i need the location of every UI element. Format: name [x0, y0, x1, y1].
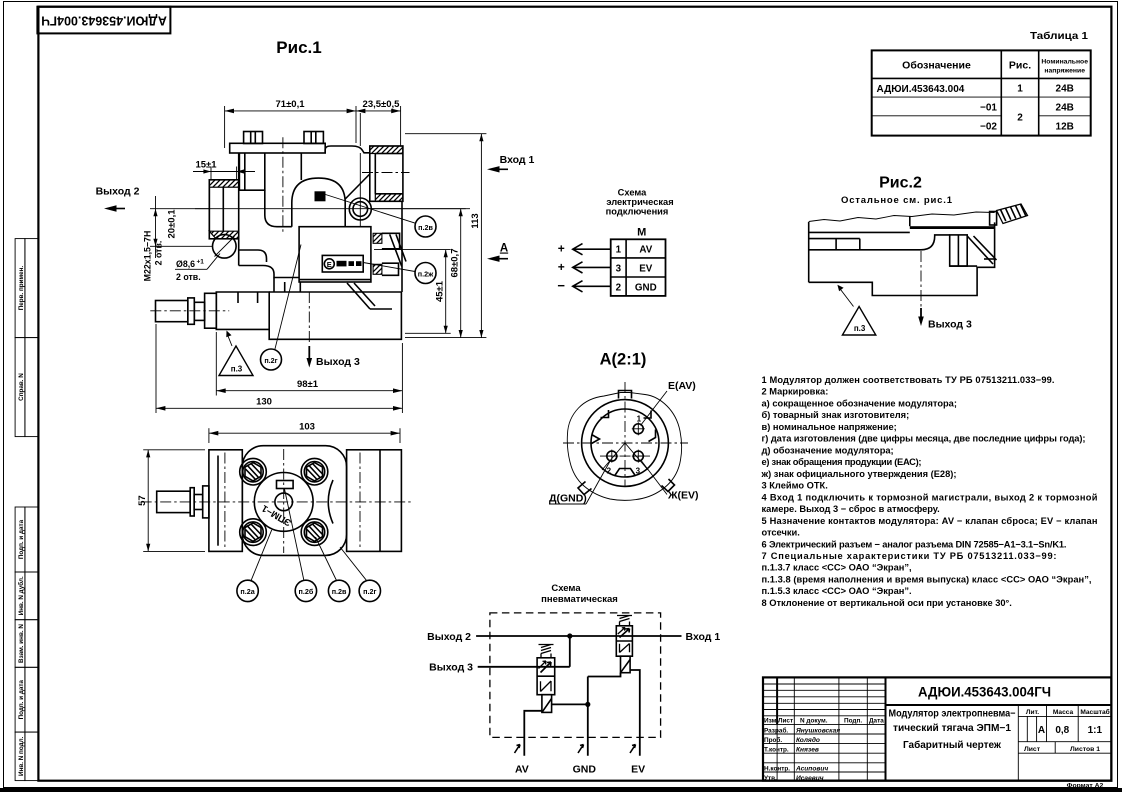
svg-text:24В: 24В [1056, 84, 1074, 95]
svg-text:+: + [558, 242, 565, 256]
valve EV (right) [616, 616, 632, 673]
dim 45±1 [374, 249, 451, 251]
wire vyhod3 [478, 666, 570, 668]
table frame [872, 50, 1091, 135]
dim 15 [210, 167, 212, 181]
callout n.2b [295, 580, 316, 601]
bottom scan band [0, 788, 1122, 792]
svg-text:AV: AV [639, 245, 652, 256]
svg-text:24В: 24В [1056, 103, 1074, 114]
connector lower-left notch [578, 482, 592, 495]
svg-text:Д(GND): Д(GND) [549, 493, 587, 505]
svg-text:4 Вход 1 подключить к тор: 4 Вход 1 подключить к тормозной магистра… [762, 492, 1098, 502]
fig1 bottom view [137, 422, 411, 602]
fig2 n.3 callout triangle [842, 307, 875, 336]
svg-text:2 отв.: 2 отв. [176, 272, 201, 282]
atmosphere arrow AV [515, 745, 521, 754]
svg-text:Модулятор электропневма−: Модулятор электропневма− [889, 709, 1016, 720]
left block [209, 450, 242, 552]
wire junction drop [569, 636, 571, 667]
svg-text:Н.контр.: Н.контр. [764, 766, 790, 773]
svg-text:пневматическая: пневматическая [541, 594, 618, 605]
svg-text:п.2г: п.2г [264, 356, 277, 365]
svg-text:AV: AV [515, 764, 529, 776]
svg-text:2: 2 [616, 283, 622, 294]
wire GND vertical [587, 677, 589, 756]
stamp header labels [764, 718, 884, 783]
svg-text:Исаевич: Исаевич [796, 775, 824, 782]
svg-text:E: E [327, 260, 332, 269]
svg-text:Лит.: Лит. [1026, 709, 1039, 716]
callout n.2g front [261, 349, 282, 370]
svg-text:Масса: Масса [1053, 709, 1074, 716]
body left face [238, 153, 240, 180]
svg-text:п.2а: п.2а [240, 587, 255, 596]
svg-text:электрическая: электрическая [606, 197, 673, 207]
svg-text:GND: GND [635, 283, 657, 294]
svg-text:2: 2 [607, 467, 612, 476]
stamp lit massa masshtab [1018, 715, 1111, 717]
svg-text:ж) знак официального утверж: ж) знак официального утверждения (Е28); [761, 469, 957, 479]
dim 71 and 23.5 [224, 106, 226, 148]
box vzam inv [15, 620, 25, 668]
fig 2 [809, 175, 1028, 336]
svg-text:б) товарный знак изготовите: б) товарный знак изготовителя; [762, 410, 910, 420]
svg-text:20±0,1: 20±0,1 [167, 209, 178, 239]
svg-text:−: − [557, 278, 565, 293]
valve AV (left) [537, 645, 555, 713]
left shaft bottom view [157, 491, 191, 512]
svg-text:1: 1 [1017, 84, 1023, 95]
svg-text:Ø8,6: Ø8,6 [176, 259, 195, 269]
box perv primen [15, 239, 25, 338]
svg-text:А: А [500, 243, 508, 255]
atmosphere arrow EV [630, 745, 636, 754]
wire vyhod2 - vhod1 [476, 635, 681, 637]
svg-text:2 отв.: 2 отв. [154, 241, 164, 266]
svg-text:М: М [637, 227, 646, 239]
fig2 break line (wavy top) [809, 212, 995, 222]
svg-text:п.3: п.3 [231, 365, 243, 374]
stamp change-record rows [763, 683, 886, 685]
left gost column [15, 239, 38, 781]
svg-text:−01: −01 [980, 103, 997, 114]
callout n.3 triangle front [219, 346, 253, 376]
upper left block [239, 153, 264, 190]
connector shroud wedge [347, 283, 370, 309]
svg-text:5 Назначение контактов моду: 5 Назначение контактов модулятора: AV − … [762, 516, 1098, 526]
dim 98±1 [215, 332, 217, 396]
svg-text:в) номинальное напряжение;: в) номинальное напряжение; [762, 422, 897, 432]
svg-text:Инв. N подл.: Инв. N подл. [18, 736, 25, 776]
body horizontal centerline through boss [195, 208, 470, 210]
svg-text:Масштаб: Масштаб [1080, 708, 1109, 716]
svg-text:АДЮИ.453643.004: АДЮИ.453643.004 [877, 84, 965, 95]
left port (vyhod 2) [209, 180, 238, 239]
body ledge 1 [239, 250, 267, 262]
svg-text:Схема: Схема [551, 583, 581, 594]
svg-text:тический тягача ЭПМ−1: тический тягача ЭПМ−1 [893, 723, 1012, 734]
connector housing freeform outline [567, 393, 681, 501]
svg-text:Таблица 1: Таблица 1 [1030, 30, 1088, 42]
svg-text:Выход 3: Выход 3 [429, 662, 473, 674]
connector inner circle [591, 409, 659, 477]
bolt 3 [243, 522, 263, 542]
svg-text:п.2ж: п.2ж [418, 269, 434, 278]
stamp frame [763, 677, 1111, 780]
svg-text:0,8: 0,8 [1055, 725, 1069, 736]
box sprav no [15, 338, 25, 437]
svg-text:АДЮИ.453643.004ГЧ: АДЮИ.453643.004ГЧ [918, 685, 1051, 700]
box inv n dubl [15, 572, 25, 620]
electrical connector side [373, 233, 382, 243]
svg-text:Разраб.: Разраб. [764, 726, 788, 734]
svg-text:Выход 3: Выход 3 [928, 319, 972, 331]
svg-text:Янушковская: Янушковская [795, 727, 840, 734]
marking square (filled) [315, 191, 326, 201]
svg-text:п.3: п.3 [854, 324, 866, 333]
svg-text:отсечки.: отсечки. [762, 528, 800, 538]
bolt 2 [304, 462, 324, 482]
svg-text:Рис.1: Рис.1 [276, 38, 321, 57]
svg-text:+1: +1 [197, 259, 205, 266]
wire GND to EV valve [588, 673, 621, 677]
approval plate [322, 255, 363, 272]
svg-text:Дата: Дата [869, 718, 884, 725]
svg-text:п.1.5.3 класс <СС> ОАО “Эк: п.1.5.3 класс <СС> ОАО “Экран”. [762, 586, 912, 596]
right port (vhod 1) [370, 146, 403, 201]
top right rounded corner [325, 146, 370, 153]
wire AV-GND link [552, 703, 588, 705]
solenoid block [299, 227, 371, 282]
svg-text:EV: EV [631, 764, 645, 776]
body center vertical centerline [282, 137, 284, 234]
wire EV [574, 266, 611, 268]
svg-text:Утв.: Утв. [764, 775, 777, 782]
svg-text:GND: GND [573, 764, 597, 776]
bolt boss circle [349, 198, 371, 220]
fig2 body profile [809, 235, 950, 250]
pneumatic schema [427, 583, 720, 776]
wire EV outlet [630, 670, 640, 756]
wire AV [574, 248, 611, 250]
svg-text:6 Электрический разъем − а: 6 Электрический разъем − аналог разъема … [762, 539, 1067, 549]
stamp name cell [1017, 705, 1019, 781]
svg-text:Лист: Лист [778, 718, 793, 725]
connector lower-right notch [662, 479, 675, 492]
svg-text:Выход 2: Выход 2 [427, 631, 471, 643]
lower body left block [216, 292, 269, 329]
svg-text:8 Отклонение от вертикально: 8 Отклонение от вертикальной оси при уст… [762, 598, 1012, 608]
vyhod 3 label [308, 346, 310, 360]
wire GND [574, 285, 611, 287]
svg-text:п.1.3.8 (время наполнения и: п.1.3.8 (время наполнения и время выпуск… [762, 575, 1092, 585]
svg-text:1:1: 1:1 [1088, 725, 1103, 736]
svg-text:М22х1,5−7Н: М22х1,5−7Н [143, 231, 153, 282]
electrical schema [557, 188, 673, 296]
connector top key notch [619, 391, 632, 399]
svg-text:Проб.: Проб. [764, 736, 782, 744]
top-left flipped designation box [37, 7, 170, 34]
right block [347, 450, 402, 552]
svg-text:7 Специальные характеристики: 7 Специальные характеристики ТУ РБ 07513… [762, 551, 1057, 561]
dim 68±0,7 [372, 208, 466, 210]
callout n.2v bottom [328, 580, 349, 601]
pin 2 [607, 451, 617, 461]
fig2 valve seat block [950, 235, 968, 266]
right scallops [328, 480, 333, 524]
connector center web lines [602, 443, 625, 470]
svg-text:п.2в: п.2в [418, 223, 433, 232]
svg-text:А: А [1038, 725, 1045, 736]
callout n.2v [415, 216, 436, 237]
svg-text:1: 1 [637, 415, 642, 424]
atmosphere arrow GND [578, 745, 584, 754]
svg-text:Колядо: Колядо [796, 736, 820, 744]
bolt 1 [243, 462, 263, 482]
svg-text:15±1: 15±1 [195, 160, 217, 171]
svg-text:Лист: Лист [1024, 746, 1041, 753]
svg-text:3: 3 [616, 264, 622, 275]
svg-text:Подп. и дата: Подп. и дата [18, 680, 25, 720]
svg-text:Вход 1: Вход 1 [500, 154, 535, 166]
bolt 4 [304, 522, 324, 542]
fig2 outlet centerline [920, 251, 922, 317]
fig1 front view [150, 38, 470, 344]
svg-text:Инв. N дубл.: Инв. N дубл. [17, 576, 25, 615]
svg-text:Изм.: Изм. [764, 718, 778, 725]
svg-text:Габаритный чертеж: Габаритный чертеж [903, 740, 1002, 751]
dim 57 [143, 449, 205, 451]
svg-text:д) обозначение модулятора;: д) обозначение модулятора; [762, 445, 894, 455]
svg-text:подключения: подключения [606, 207, 669, 217]
central circle [254, 473, 313, 532]
marking plate [277, 481, 294, 489]
lower block inner verticals [237, 292, 239, 303]
callout n.2g bottom [359, 580, 380, 601]
svg-text:Подп.: Подп. [844, 718, 862, 725]
dim 130 [155, 324, 157, 413]
detail A [549, 351, 699, 505]
dim 103 [208, 428, 210, 443]
svg-text:Рис.2: Рис.2 [879, 175, 922, 192]
stamp signatures [795, 727, 840, 782]
chamfer edge dome to port [345, 175, 369, 200]
body ledge 2 [239, 266, 299, 278]
dome [292, 178, 345, 227]
svg-text:АДЮИ.453643.004ГЧ: АДЮИ.453643.004ГЧ [41, 14, 167, 28]
stamp signature rows [763, 723, 886, 725]
wire AV outlet [524, 711, 542, 756]
table 1 [872, 30, 1091, 136]
svg-text:130: 130 [256, 397, 272, 408]
box podp i data 1 [15, 507, 25, 572]
svg-text:Рис.: Рис. [1009, 60, 1031, 72]
svg-text:3 Клеймо ОТК.: 3 Клеймо ОТК. [762, 481, 828, 491]
fig1 dimensions [96, 99, 535, 413]
fig2 wedge diagonals [967, 236, 993, 264]
svg-text:Остальное см. рис.1: Остальное см. рис.1 [841, 195, 953, 206]
svg-text:Вход 1: Вход 1 [686, 631, 721, 643]
svg-text:Схема: Схема [618, 188, 647, 198]
fig2 thick section line [910, 226, 995, 229]
pin 3 [633, 451, 643, 461]
svg-text:12В: 12В [1056, 122, 1074, 133]
top bolt left [244, 132, 263, 144]
svg-text:Князев: Князев [796, 747, 819, 754]
svg-text:Взам. инв. N: Взам. инв. N [18, 624, 25, 663]
svg-text:113: 113 [470, 213, 481, 228]
svg-text:п.1.3.7 класс <СС> ОАО “Эк: п.1.3.7 класс <СС> ОАО “Экран”, [762, 563, 912, 573]
right port centerline [362, 172, 410, 174]
central flange [242, 446, 346, 556]
svg-text:N докум.: N докум. [800, 718, 828, 725]
svg-text:−02: −02 [980, 122, 997, 133]
svg-text:103: 103 [299, 422, 315, 433]
svg-text:57: 57 [137, 495, 148, 506]
svg-text:Т.контр.: Т.контр. [764, 747, 789, 754]
fig2 top-right fitting [990, 212, 997, 226]
svg-text:23,5±0,5: 23,5±0,5 [363, 99, 401, 110]
svg-text:а) сокращенное обозначение: а) сокращенное обозначение модулятора; [762, 399, 957, 409]
left shaft front [156, 301, 188, 322]
upper body inner vertical [300, 153, 302, 180]
connector centerlines [563, 442, 688, 444]
shaft centerline [150, 310, 229, 312]
lower vertical centerline [308, 292, 310, 344]
hole circle o8.6 [213, 235, 237, 259]
svg-text:1: 1 [616, 245, 622, 256]
flange ears [240, 458, 267, 485]
svg-text:+: + [558, 260, 565, 274]
title block [763, 677, 1111, 789]
lower body right block [269, 292, 401, 339]
svg-text:п.2б: п.2б [299, 587, 314, 596]
junction node [567, 633, 572, 638]
fig2 outlet arrow [920, 308, 922, 318]
svg-text:Подп. и дата: Подп. и дата [18, 519, 25, 559]
svg-text:п.2в: п.2в [332, 587, 347, 596]
box inv n podl [15, 732, 25, 781]
connector table [611, 239, 666, 296]
box podp i data 2 [15, 667, 25, 732]
connector outer circle [582, 400, 669, 487]
svg-text:Формат А2: Формат А2 [1067, 783, 1104, 790]
svg-text:Выход 2: Выход 2 [96, 186, 140, 198]
dim 113 [405, 133, 486, 135]
svg-text:напряжение: напряжение [1044, 68, 1085, 75]
stamp designation cell [886, 704, 1112, 706]
svg-text:г) дата изготовления (две: г) дата изготовления (две цифры месяца, … [762, 434, 1086, 444]
stamp list row [1018, 741, 1111, 743]
svg-text:Выход 3: Выход 3 [316, 356, 360, 368]
svg-text:Листов 1: Листов 1 [1070, 746, 1100, 753]
top bolt right [304, 132, 323, 144]
fig2 left body [808, 222, 810, 282]
svg-text:Ж(EV): Ж(EV) [667, 490, 699, 502]
svg-text:е) знак обращения продукции: е) знак обращения продукции (ЕАС); [762, 457, 922, 467]
pneumo dashed boundary [490, 613, 661, 738]
svg-text:E(AV): E(AV) [668, 380, 696, 392]
svg-text:45±1: 45±1 [434, 280, 445, 302]
svg-text:2 Маркировка:: 2 Маркировка: [762, 387, 829, 397]
svg-text:EV: EV [639, 264, 653, 275]
pin 1 [633, 424, 643, 434]
svg-text:камере. Выход 3 − сброс в: камере. Выход 3 − сброс в атмосферу. [762, 504, 940, 514]
svg-text:3: 3 [636, 467, 641, 476]
svg-text:71±0,1: 71±0,1 [276, 99, 306, 110]
stamp left grid verticals [776, 677, 778, 724]
svg-text:98±1: 98±1 [297, 379, 319, 390]
svg-text:п.2г: п.2г [363, 587, 376, 596]
junction node GND [585, 702, 590, 707]
bottom view centerlines [141, 501, 411, 503]
svg-text:Асипович: Асипович [795, 766, 828, 773]
svg-text:2: 2 [1017, 113, 1023, 124]
callout n.2a [237, 580, 258, 601]
svg-text:68±0,7: 68±0,7 [449, 249, 460, 278]
callout n.2zh [415, 263, 436, 284]
body right face [401, 201, 403, 292]
svg-text:Перв. примен.: Перв. примен. [18, 266, 25, 311]
svg-text:Справ. N: Справ. N [18, 373, 25, 401]
connector inner key slots [601, 410, 609, 418]
svg-text:1 Модулятор должен соответс: 1 Модулятор должен соответствовать ТУ РБ… [762, 375, 1055, 385]
notes [761, 375, 1098, 608]
dim 20±0,1 [150, 208, 209, 210]
svg-text:Обозначение: Обозначение [902, 60, 971, 72]
svg-text:А(2:1): А(2:1) [600, 351, 647, 369]
svg-text:Номинальное: Номинальное [1041, 59, 1088, 66]
top flange [230, 143, 326, 153]
